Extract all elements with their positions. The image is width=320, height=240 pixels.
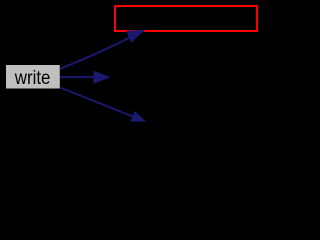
svg-text:write: write — [14, 67, 50, 89]
